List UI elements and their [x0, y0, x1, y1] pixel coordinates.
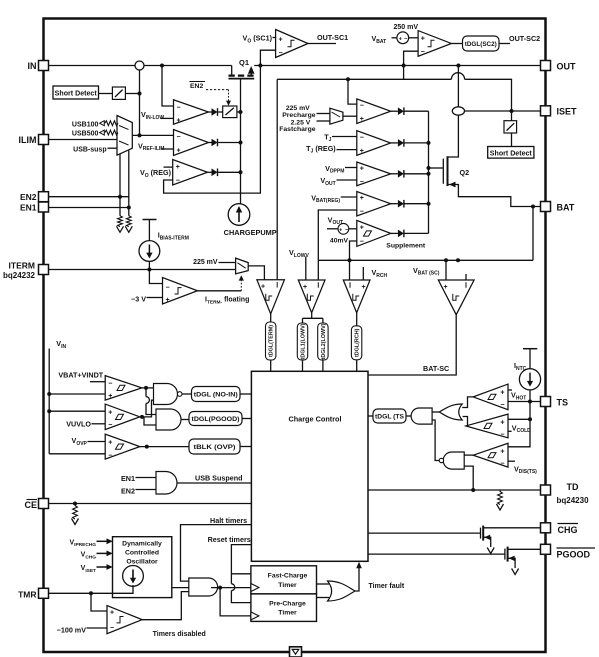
IBIAS-ITERM current source — [143, 219, 157, 221]
ITERM-floating output (dotted) to mux select — [198, 290, 242, 292]
svg-text:+: + — [360, 116, 364, 123]
AND gate timer clock — [189, 578, 218, 596]
diode Supplement — [398, 230, 404, 238]
wire VO(SC1) minus input from OUT node — [260, 50, 275, 65]
delay tDGL1(LOWV) and tDGL2(LOWV) — [311, 313, 313, 319]
OR gate timer fault — [317, 583, 330, 585]
DCO output wire — [172, 587, 190, 589]
Reset timers wire (with hop) — [231, 545, 251, 584]
svg-text:250 mV: 250 mV — [394, 24, 419, 31]
svg-text:−: − — [500, 460, 504, 467]
diode VREF-ILIM output — [209, 142, 212, 144]
svg-text:Fastcharge: Fastcharge — [279, 126, 315, 133]
svg-text:+: + — [177, 118, 181, 125]
svg-text:TMR: TMR — [18, 589, 36, 599]
wire comparator to timer AND gate — [142, 592, 189, 620]
svg-text:−: − — [500, 432, 504, 439]
svg-text:BAT-SC: BAT-SC — [423, 364, 449, 373]
NAND gate (no-input detect) — [154, 384, 178, 405]
wire ITERM pin to precharge mux — [49, 269, 236, 271]
CE wire with pulldown — [49, 503, 252, 505]
wire SC2 minus input to OUT node — [404, 51, 419, 65]
wire rail to Q2 gate — [429, 167, 444, 169]
comparator VDIS(TS) — [473, 443, 508, 467]
svg-text:USB Suspend: USB Suspend — [195, 474, 243, 483]
wire Q1 drain to OUT pin — [254, 65, 540, 67]
switch S2 (EN2 controlled) — [218, 111, 223, 113]
comparator VCOLD — [466, 414, 508, 438]
delay tDGL(TS) — [406, 415, 411, 417]
AND gate (PGOOD) — [156, 409, 181, 430]
svg-text:−: − — [108, 452, 112, 459]
timer fault wire to charge control — [355, 568, 359, 592]
Fast-Charge Timer block — [251, 566, 317, 594]
svg-text:Q2: Q2 — [460, 168, 470, 177]
EN2 wire to mux pulldown leg — [49, 196, 129, 198]
current-sense oval on IN line — [135, 61, 144, 70]
svg-text:+: + — [108, 409, 112, 416]
svg-text:BAT: BAT — [557, 203, 575, 213]
comparator BAT-SC — [438, 280, 474, 315]
PGOOD open-drain driver — [368, 553, 505, 555]
precharge reference mux — [330, 108, 343, 124]
delay tDGL(SC2) — [451, 43, 462, 45]
Short Detect block (output) — [488, 147, 534, 159]
svg-text:tDGL(RCH): tDGL(RCH) — [355, 328, 361, 357]
pin BAT (right) — [541, 202, 551, 212]
svg-text:Oscillator: Oscillator — [126, 558, 158, 565]
wire VUVLO to AND — [144, 417, 156, 425]
svg-text:CE: CE — [24, 500, 37, 510]
svg-text:−: − — [279, 50, 283, 57]
svg-text:TS: TS — [557, 398, 569, 408]
svg-text:+: + — [361, 284, 365, 291]
svg-text:ITERM: ITERM — [9, 261, 35, 271]
wire VLOWV minus from BAT rail — [317, 260, 319, 280]
comparator VUVLO — [49, 410, 105, 412]
comparator ITERM-floating — [149, 270, 162, 284]
svg-text:−: − — [177, 104, 181, 111]
svg-text:225 mV: 225 mV — [193, 259, 218, 266]
thermal pad symbol (bottom center) — [290, 647, 302, 657]
svg-text:USB100: USB100 — [72, 122, 99, 129]
svg-text:Supplement: Supplement — [386, 242, 426, 249]
Charge Control block — [251, 371, 368, 561]
wire TD net to NAND input — [464, 466, 473, 490]
svg-text:Reset timers: Reset timers — [208, 535, 251, 544]
delay tDGL(RCH) — [356, 313, 358, 326]
wire VRCH minus from BAT rail — [349, 260, 351, 280]
svg-text:−: − — [421, 49, 425, 56]
pin TS (right) — [541, 397, 551, 407]
svg-text:+: + — [279, 37, 283, 44]
svg-text:−: − — [108, 380, 112, 387]
svg-text:Halt timers: Halt timers — [210, 516, 247, 525]
wire short detect to switch — [99, 93, 113, 95]
amplifier precharge/fastcharge — [348, 79, 357, 104]
svg-text:−: − — [108, 422, 112, 429]
svg-text:CHARGEPUMP: CHARGEPUMP — [224, 230, 277, 237]
svg-text:Precharge: Precharge — [282, 112, 315, 119]
pin ISET (right) — [541, 106, 551, 116]
pin PGOOD (right) — [541, 544, 551, 554]
pin IN (left) — [39, 61, 49, 71]
pin TD (right) — [541, 485, 551, 495]
comparator ITERM (termination) — [257, 280, 285, 314]
svg-text:−: − — [345, 227, 348, 233]
transistor Q1 (PMOS pass switch) — [231, 66, 233, 75]
svg-text:−: − — [166, 285, 170, 292]
wire BAT-SC output to charge control — [368, 315, 456, 375]
svg-text:tDGL(TERM): tDGL(TERM) — [269, 325, 275, 357]
Dynamically Controlled Oscillator block — [113, 537, 172, 598]
svg-text:tDGL (NO-IN): tDGL (NO-IN) — [194, 391, 238, 398]
svg-text:CHG: CHG — [558, 525, 578, 535]
svg-text:Short Detect: Short Detect — [55, 91, 98, 98]
svg-text:EN1: EN1 — [20, 202, 37, 212]
pin CHG (right) — [541, 523, 551, 533]
diode VO(REG) output — [208, 171, 212, 173]
svg-text:tDGL(PGOOD): tDGL(PGOOD) — [192, 416, 240, 423]
svg-text:VBAT+VINDT: VBAT+VINDT — [58, 370, 103, 379]
delay tDGL(NO-IN) — [192, 387, 241, 402]
svg-text:+: + — [421, 35, 425, 42]
ISET sense oval and wire — [457, 66, 459, 107]
svg-text:tBLK (OVP): tBLK (OVP) — [194, 444, 236, 451]
svg-text:+: + — [303, 284, 307, 291]
wire OUT node to SC2/rail — [403, 66, 405, 80]
svg-text:Q1: Q1 — [239, 58, 249, 67]
feedback wire VO(REG) minus to OUT node — [164, 66, 261, 194]
svg-text:+: + — [108, 440, 112, 447]
svg-text:−: − — [177, 134, 181, 141]
wire BAT node down to BAT-SC rail — [532, 207, 534, 261]
pin CE (left) — [39, 499, 49, 509]
svg-text:Timer: Timer — [278, 582, 297, 589]
svg-text:+: + — [261, 284, 265, 291]
svg-text:OUT-SC2: OUT-SC2 — [509, 34, 540, 43]
comparator VHOT — [473, 384, 508, 410]
comparator timers-disabled — [91, 593, 107, 611]
svg-text:tDGL (TS: tDGL (TS — [375, 414, 404, 420]
Pre-Charge Timer block — [251, 594, 317, 622]
diode TJ amp — [398, 139, 404, 147]
svg-text:+: + — [360, 148, 364, 155]
Short Detect block (input) — [53, 86, 99, 99]
svg-text:PGOOD: PGOOD — [557, 550, 591, 560]
svg-text:−: − — [500, 402, 504, 409]
diode precharge amp — [398, 107, 404, 115]
svg-text:ISET: ISET — [557, 107, 578, 117]
svg-text:VUVLO: VUVLO — [66, 419, 91, 428]
TS sense vertical to VCOLD/VDIS — [508, 402, 530, 447]
CHARGEPUMP current source — [228, 204, 250, 226]
comparator Supplement — [357, 220, 391, 246]
svg-text:USB500: USB500 — [72, 131, 99, 138]
wire ILIM pin to mux — [49, 139, 118, 141]
amplifier VBAT(REG) — [357, 192, 391, 217]
vertical from oval down to VREF-ILIM net — [139, 70, 141, 135]
svg-text:+: + — [500, 448, 504, 455]
precharge select mux — [236, 258, 249, 274]
pin EN2 (left) — [39, 192, 49, 202]
svg-text:−3 V: −3 V — [131, 294, 146, 303]
svg-text:−100 mV: −100 mV — [57, 626, 87, 635]
diode VIN-LOW output — [209, 111, 212, 113]
AND output to timer clocks — [211, 587, 251, 589]
wire VOVP to blanking delay — [145, 445, 149, 449]
svg-text:+: + — [360, 195, 364, 202]
TMR wire — [49, 585, 134, 593]
svg-text:bq24230: bq24230 — [557, 496, 590, 505]
svg-text:TD: TD — [567, 482, 579, 492]
EN1 wire to mux pulldown leg — [49, 207, 129, 209]
wire switch to IN-sense vertical — [125, 93, 139, 95]
svg-text:−: − — [360, 103, 364, 110]
comparator VRCH — [343, 280, 370, 313]
svg-text:tDGL2(LOWV): tDGL2(LOWV) — [321, 323, 327, 359]
mux pulldown leg 1 resistor and ground — [119, 154, 121, 216]
svg-text:Timer: Timer — [278, 610, 297, 617]
OR gate TS window — [439, 404, 462, 420]
wire OR to AND — [432, 411, 439, 413]
delay tDGL(TERM) — [270, 314, 272, 322]
svg-text:tDGL1(LOWV): tDGL1(LOWV) — [300, 323, 306, 359]
svg-text:tDGL(SC2): tDGL(SC2) — [465, 41, 497, 48]
svg-text:+: + — [500, 419, 504, 426]
diode DPPM amp — [398, 170, 404, 178]
INTC current source — [523, 348, 537, 350]
amplifier TJ — [357, 131, 391, 156]
svg-text:+: + — [360, 166, 364, 173]
node junction on IN line — [160, 64, 164, 68]
svg-text:ILIM: ILIM — [19, 135, 37, 145]
mux pulldown leg 2 resistor and ground — [128, 150, 130, 216]
TD wire with pulldown — [368, 489, 541, 491]
ILIM input mux — [117, 116, 132, 156]
pin ILIM (left) — [39, 135, 49, 145]
BAT sense rail — [318, 259, 533, 261]
wire VBAT+VINDT to NAND — [142, 387, 154, 389]
TS wire — [508, 401, 541, 403]
svg-text:+: + — [500, 390, 504, 397]
wire BAT-SC plus from rail — [445, 260, 447, 280]
AND gate TS enable — [411, 408, 432, 424]
VO sense rail (top) with wire hop — [277, 78, 451, 80]
output wire OUT-SC1 — [308, 43, 336, 45]
delay tBLK(OVP) — [189, 439, 240, 454]
comparator VO(REG) — [173, 160, 208, 186]
svg-text:EN1: EN1 — [121, 474, 135, 483]
svg-text:+: + — [110, 609, 114, 616]
wire VBAT+VINDT to AND (with hop) — [145, 388, 147, 397]
switch S1 — [112, 87, 125, 99]
svg-text:+: + — [360, 225, 364, 232]
amplifier DPPM — [357, 162, 391, 186]
svg-text:EN2: EN2 — [20, 192, 37, 202]
svg-text:bq24232: bq24232 — [3, 271, 36, 280]
output wire OUT-SC2 — [499, 43, 510, 45]
pin OUT (right) — [541, 61, 551, 71]
svg-text:OUT: OUT — [557, 62, 577, 72]
wire VUVLO to NAND — [140, 415, 144, 419]
svg-text:EN2: EN2 — [190, 83, 203, 90]
wire Supplement minus to BAT rail — [350, 241, 357, 260]
pin ITERM (left) — [39, 265, 49, 275]
svg-text:Short Detect: Short Detect — [490, 150, 533, 157]
svg-text:Fast-Charge: Fast-Charge — [268, 573, 308, 580]
NAND gate TS disable — [443, 452, 464, 469]
svg-text:Pre-Charge: Pre-Charge — [269, 600, 306, 607]
wire mux output to ITERM comparator — [248, 266, 264, 280]
svg-text:Timer fault: Timer fault — [369, 583, 405, 590]
CHG open-drain driver — [368, 532, 481, 534]
svg-text:Controlled: Controlled — [125, 549, 159, 556]
Q2 source to BAT pin — [448, 185, 541, 207]
svg-text:40mV: 40mV — [330, 238, 349, 245]
svg-text:Timers disabled: Timers disabled — [153, 631, 206, 638]
gate rail of Q2 (diode-OR outputs) — [428, 111, 430, 233]
delay tDGL(PGOOD) — [189, 412, 242, 426]
svg-text:Dynamically: Dynamically — [122, 540, 162, 547]
svg-text:+: + — [176, 164, 180, 171]
comparator VIN-LOW — [162, 66, 174, 107]
svg-text:−: − — [360, 208, 364, 215]
svg-text:−: − — [360, 238, 364, 245]
svg-text:+: + — [339, 227, 342, 233]
Halt timers wire — [181, 525, 252, 582]
Q2 drain from ISET sense — [448, 115, 459, 157]
pin TMR (left) — [39, 588, 49, 598]
wire VBAT(REG) minus to BAT rail — [318, 210, 357, 260]
svg-text:EN2: EN2 — [121, 487, 135, 496]
svg-text:Charge Control: Charge Control — [288, 415, 341, 424]
transistor Q2 — [442, 159, 444, 184]
svg-text:+: + — [177, 148, 181, 155]
comparator VREF-ILIM — [132, 134, 173, 136]
svg-text:OUT-SC1: OUT-SC1 — [317, 33, 348, 42]
svg-text:IN: IN — [28, 61, 37, 71]
diode VBAT(REG) amp — [398, 200, 404, 208]
wire oval to Q1 source — [144, 65, 232, 67]
wire NAND output up to AND input — [432, 420, 439, 461]
VO sense rail left vertical down to ITERM comparator — [276, 79, 278, 279]
svg-text:+: + — [443, 284, 447, 291]
switch S3 (short detect) — [511, 111, 513, 121]
svg-text:+: + — [166, 297, 170, 304]
svg-text:USB-susp: USB-susp — [73, 146, 106, 153]
svg-text:−: − — [360, 134, 364, 141]
wire IN pin to current sense oval — [49, 65, 136, 67]
Q1 gate line down to charge pump — [240, 79, 242, 204]
svg-text:−: − — [176, 177, 180, 184]
svg-text:−: − — [110, 625, 114, 632]
svg-text:−: − — [360, 179, 364, 186]
svg-text:+: + — [108, 393, 112, 400]
pin EN1 (left) — [39, 202, 49, 212]
comparator SC2 — [409, 37, 418, 39]
